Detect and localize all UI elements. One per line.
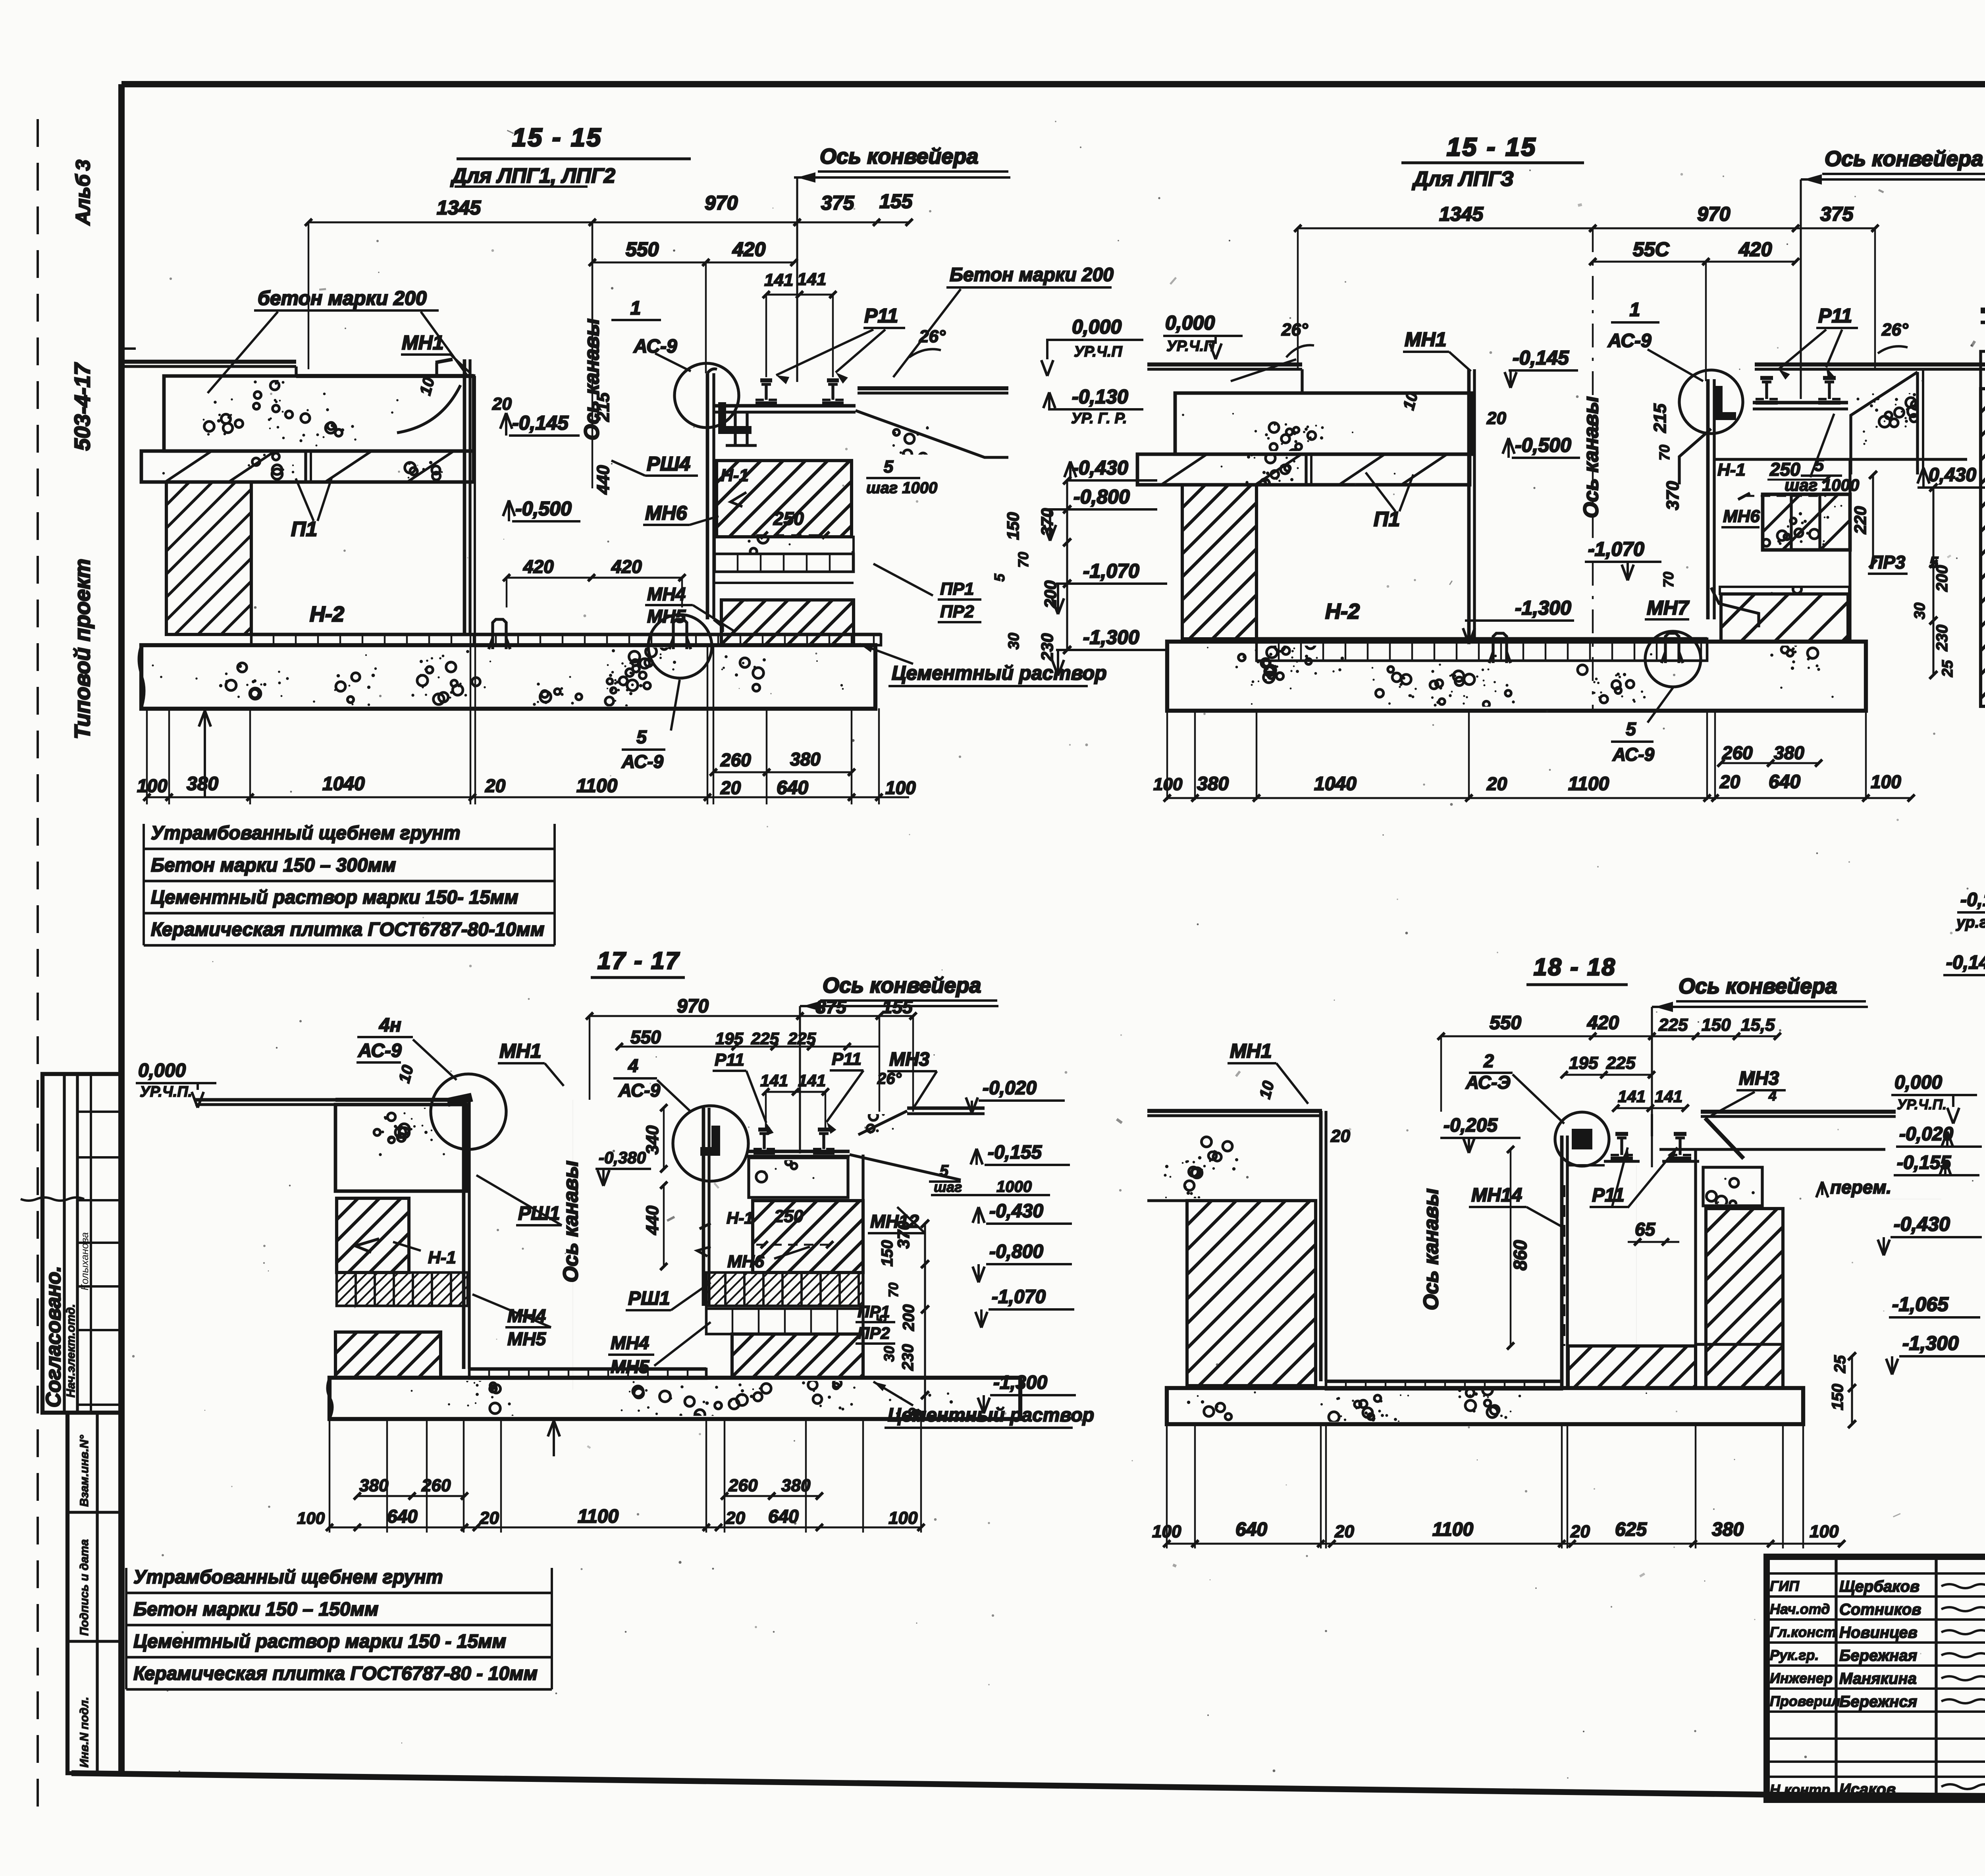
svg-text:195: 195 bbox=[1569, 1053, 1598, 1073]
svg-text:225: 225 bbox=[751, 1029, 779, 1048]
svg-text:Взам.инв.N°: Взам.инв.N° bbox=[78, 1434, 91, 1507]
svg-text:шаг: шаг bbox=[934, 1179, 962, 1195]
svg-text:Ось конвейера: Ось конвейера bbox=[1825, 147, 1983, 171]
svg-text:-1,300: -1,300 bbox=[1902, 1332, 1959, 1354]
svg-text:-0,130: -0,130 bbox=[1960, 889, 1985, 910]
svg-text:26°: 26° bbox=[1281, 320, 1308, 339]
svg-text:260: 260 bbox=[720, 750, 751, 770]
svg-text:МН4: МН4 bbox=[611, 1332, 649, 1353]
svg-text:440: 440 bbox=[594, 465, 613, 495]
svg-text:225: 225 bbox=[1658, 1015, 1688, 1035]
svg-text:-0,020: -0,020 bbox=[983, 1078, 1037, 1099]
svg-text:АС-Э: АС-Э bbox=[1465, 1072, 1511, 1093]
svg-text:150: 150 bbox=[1004, 512, 1022, 540]
svg-text:380: 380 bbox=[1197, 773, 1229, 794]
svg-text:Ось канавы: Ось канавы bbox=[1580, 396, 1603, 518]
svg-text:МН4: МН4 bbox=[647, 584, 686, 604]
svg-text:200: 200 bbox=[900, 1304, 917, 1331]
svg-text:70: 70 bbox=[1660, 572, 1677, 588]
svg-text:Цементный раствор: Цементный раствор bbox=[888, 1405, 1094, 1426]
svg-text:220: 220 bbox=[1851, 506, 1869, 534]
svg-text:5: 5 bbox=[874, 1314, 889, 1322]
svg-text:МН1: МН1 bbox=[402, 332, 444, 354]
svg-text:-0,500: -0,500 bbox=[515, 497, 572, 520]
svg-text:Бетон марки 150 – 150: Бетон марки 150 – 150мм bbox=[133, 1599, 378, 1620]
svg-text:1100: 1100 bbox=[1568, 773, 1609, 794]
svg-text:260: 260 bbox=[728, 1476, 758, 1495]
svg-text:0,000: 0,000 bbox=[1072, 316, 1122, 338]
svg-text:АС-9: АС-9 bbox=[1607, 330, 1652, 351]
svg-text:1: 1 bbox=[630, 298, 641, 319]
svg-text:-0,380: -0,380 bbox=[599, 1148, 646, 1167]
svg-text:20: 20 bbox=[1570, 1522, 1590, 1541]
svg-text:шаг 1000: шаг 1000 bbox=[866, 479, 937, 497]
svg-text:375: 375 bbox=[821, 192, 855, 214]
svg-text:Сотников: Сотников bbox=[1839, 1601, 1921, 1618]
svg-text:141: 141 bbox=[764, 270, 793, 290]
svg-text:5: 5 bbox=[636, 727, 647, 747]
svg-text:УР.Ч.П: УР.Ч.П bbox=[1166, 338, 1215, 355]
svg-text:-0,430: -0,430 bbox=[1894, 1213, 1950, 1235]
svg-text:ПР2: ПР2 bbox=[858, 1324, 890, 1342]
svg-text:340: 340 bbox=[643, 1125, 662, 1155]
svg-text:70: 70 bbox=[1015, 552, 1031, 568]
svg-text:МН5: МН5 bbox=[507, 1328, 547, 1349]
svg-text:100: 100 bbox=[1871, 771, 1901, 792]
svg-text:20: 20 bbox=[1719, 771, 1740, 792]
svg-text:Н-1: Н-1 bbox=[721, 466, 749, 485]
svg-text:-1,070: -1,070 bbox=[992, 1286, 1046, 1307]
svg-text:-0,155: -0,155 bbox=[988, 1142, 1042, 1163]
svg-text:ур.г.р.: ур.г.р. bbox=[1956, 914, 1985, 931]
svg-text:ПР1: ПР1 bbox=[940, 579, 974, 599]
svg-text:Гл.конст: Гл.конст bbox=[1770, 1624, 1836, 1640]
svg-text:380: 380 bbox=[790, 749, 821, 769]
svg-text:МН3: МН3 bbox=[1739, 1068, 1779, 1089]
svg-text:4: 4 bbox=[628, 1055, 638, 1076]
svg-text:5: 5 bbox=[940, 1162, 949, 1180]
svg-text:1345: 1345 bbox=[437, 197, 481, 219]
svg-text:УР.Ч.П.: УР.Ч.П. bbox=[140, 1084, 192, 1100]
svg-text:375: 375 bbox=[816, 997, 847, 1017]
svg-text:0,000: 0,000 bbox=[138, 1060, 186, 1081]
svg-text:Р11: Р11 bbox=[1818, 305, 1852, 327]
svg-text:260: 260 bbox=[421, 1476, 451, 1495]
svg-text:П1: П1 bbox=[291, 518, 317, 541]
svg-text:-1,300: -1,300 bbox=[1515, 597, 1571, 619]
svg-text:200: 200 bbox=[1041, 580, 1060, 609]
svg-text:380: 380 bbox=[359, 1476, 389, 1495]
svg-text:30: 30 bbox=[1006, 633, 1022, 650]
svg-text:Ось конвейера: Ось конвейера bbox=[820, 145, 978, 168]
svg-text:141: 141 bbox=[760, 1071, 788, 1090]
svg-text:Ось конвейера: Ось конвейера bbox=[823, 974, 981, 997]
svg-text:Утрамбованный щебнем грунт: Утрамбованный щебнем грунт bbox=[133, 1567, 443, 1588]
svg-text:Цементный раствор: Цементный раствор bbox=[892, 662, 1107, 684]
svg-text:-1,070: -1,070 bbox=[1588, 538, 1644, 560]
svg-text:Н-1: Н-1 bbox=[428, 1248, 456, 1267]
svg-text:Р11: Р11 bbox=[864, 305, 898, 327]
svg-text:УР.Ч.П: УР.Ч.П bbox=[1074, 343, 1122, 360]
svg-text:230: 230 bbox=[1038, 633, 1056, 661]
svg-text:-0,205: -0,205 bbox=[1443, 1115, 1498, 1136]
svg-text:Бетон марки 150 – 30: Бетон марки 150 – 300мм bbox=[151, 855, 396, 876]
svg-text:-1,300: -1,300 bbox=[1083, 626, 1139, 648]
svg-text:20: 20 bbox=[1334, 1522, 1354, 1541]
svg-text:970: 970 bbox=[1697, 203, 1731, 225]
svg-text:МН1: МН1 bbox=[1405, 328, 1447, 351]
svg-text:Н-1: Н-1 bbox=[1717, 460, 1746, 480]
svg-text:-0,800: -0,800 bbox=[989, 1241, 1043, 1262]
svg-text:Р11: Р11 bbox=[715, 1050, 744, 1070]
svg-text:100: 100 bbox=[885, 777, 916, 798]
svg-text:155: 155 bbox=[882, 997, 913, 1017]
svg-text:Керамическая плитка ГОСТ6787-8: Керамическая плитка ГОСТ6787-80 - 10мм bbox=[133, 1663, 538, 1684]
svg-text:380: 380 bbox=[187, 773, 218, 794]
svg-text:-0,430: -0,430 bbox=[1072, 457, 1128, 479]
svg-text:375: 375 bbox=[1820, 203, 1854, 225]
svg-text:370: 370 bbox=[1038, 508, 1056, 536]
svg-text:ПР2: ПР2 bbox=[940, 602, 974, 621]
svg-text:Утрамбованный щебнем грунт: Утрамбованный щебнем грунт bbox=[151, 823, 461, 844]
svg-text:141: 141 bbox=[797, 270, 826, 289]
svg-text:РШ1: РШ1 bbox=[628, 1288, 670, 1309]
svg-text:18 - 18: 18 - 18 bbox=[1534, 954, 1616, 980]
svg-text:Ось конвейера: Ось конвейера bbox=[1679, 974, 1837, 998]
svg-text:-1,070: -1,070 bbox=[1083, 560, 1139, 582]
svg-text:Ось канавы: Ось канавы bbox=[559, 1161, 582, 1282]
svg-text:260: 260 bbox=[1722, 742, 1753, 763]
svg-text:РШ4: РШ4 bbox=[647, 453, 690, 475]
svg-text:-0,500: -0,500 bbox=[1515, 434, 1571, 456]
svg-text:-1,065: -1,065 bbox=[1892, 1293, 1949, 1315]
svg-text:АС-9: АС-9 bbox=[618, 1080, 660, 1101]
svg-text:141: 141 bbox=[1618, 1087, 1646, 1106]
svg-text:Для ЛПГ1, ЛПГ2: Для ЛПГ1, ЛПГ2 bbox=[450, 164, 615, 187]
svg-text:1040: 1040 bbox=[1314, 773, 1357, 794]
svg-text:бетон марки 200: бетон марки 200 bbox=[258, 287, 427, 309]
svg-text:250: 250 bbox=[1769, 459, 1800, 480]
svg-text:100: 100 bbox=[1810, 1522, 1839, 1541]
svg-text:перем.: перем. bbox=[1830, 1177, 1891, 1197]
svg-text:-1,300: -1,300 bbox=[993, 1372, 1047, 1393]
svg-text:15 - 15: 15 - 15 bbox=[1447, 133, 1537, 161]
svg-text:15,5: 15,5 bbox=[1741, 1015, 1775, 1035]
svg-text:5: 5 bbox=[1626, 719, 1636, 739]
svg-text:420: 420 bbox=[611, 556, 642, 577]
svg-text:-0,800: -0,800 bbox=[1073, 486, 1130, 508]
svg-text:100: 100 bbox=[297, 1509, 325, 1527]
svg-text:225: 225 bbox=[1606, 1053, 1636, 1073]
svg-text:20: 20 bbox=[1486, 409, 1506, 428]
svg-text:Н.контр: Н.контр bbox=[1770, 1782, 1830, 1798]
svg-text:Исаков: Исаков bbox=[1839, 1781, 1896, 1798]
svg-text:230: 230 bbox=[1933, 625, 1951, 652]
svg-text:Ось канавы: Ось канавы bbox=[1420, 1188, 1443, 1310]
svg-text:20: 20 bbox=[1486, 773, 1507, 794]
svg-text:20: 20 bbox=[720, 777, 741, 798]
svg-text:Бетон марки 200: Бетон марки 200 bbox=[950, 264, 1114, 285]
svg-text:1345: 1345 bbox=[1439, 203, 1484, 225]
svg-text:550: 550 bbox=[1490, 1012, 1521, 1033]
svg-text:970: 970 bbox=[705, 192, 738, 214]
svg-text:-0,430: -0,430 bbox=[989, 1201, 1043, 1222]
svg-text:Нач.элект.отд.: Нач.элект.отд. bbox=[64, 1304, 77, 1398]
svg-text:Для ЛПГЗ: Для ЛПГЗ bbox=[1412, 168, 1514, 191]
svg-text:1: 1 bbox=[1630, 299, 1640, 320]
svg-text:195: 195 bbox=[715, 1029, 744, 1048]
svg-text:-0,130: -0,130 bbox=[1072, 386, 1128, 408]
svg-text:3: 3 bbox=[72, 160, 94, 171]
svg-text:420: 420 bbox=[1738, 238, 1772, 260]
svg-text:30: 30 bbox=[1912, 603, 1928, 619]
svg-text:П1: П1 bbox=[1374, 508, 1400, 531]
svg-text:Колыханова: Колыханова bbox=[79, 1232, 91, 1290]
svg-text:1100: 1100 bbox=[578, 1506, 619, 1527]
svg-text:640: 640 bbox=[1235, 1519, 1267, 1540]
svg-text:370: 370 bbox=[894, 1221, 913, 1249]
svg-text:Бережная: Бережная bbox=[1839, 1647, 1917, 1664]
svg-text:100: 100 bbox=[1153, 775, 1183, 794]
svg-text:Рук.гр.: Рук.гр. bbox=[1770, 1647, 1819, 1663]
svg-text:Новинцев: Новинцев bbox=[1839, 1624, 1918, 1641]
svg-text:640: 640 bbox=[1769, 771, 1800, 792]
svg-text:1100: 1100 bbox=[1432, 1519, 1474, 1540]
svg-text:70: 70 bbox=[886, 1282, 901, 1298]
svg-text:970: 970 bbox=[677, 996, 709, 1017]
svg-text:Манякина: Манякина bbox=[1839, 1670, 1917, 1687]
svg-text:МН14: МН14 bbox=[1471, 1185, 1522, 1206]
svg-text:МН5: МН5 bbox=[611, 1356, 650, 1377]
svg-text:17 - 17: 17 - 17 bbox=[597, 947, 680, 974]
svg-text:Керамическая плитка ГОСТ6787-8: Керамическая плитка ГОСТ6787-80-10мм bbox=[151, 919, 544, 940]
svg-text:МН1: МН1 bbox=[499, 1040, 542, 1062]
svg-text:550: 550 bbox=[630, 1027, 661, 1047]
svg-text:141: 141 bbox=[798, 1071, 826, 1090]
svg-text:20: 20 bbox=[479, 1508, 499, 1528]
svg-text:ПР3: ПР3 bbox=[1870, 552, 1906, 573]
svg-text:Бережнся: Бережнся bbox=[1839, 1693, 1917, 1710]
svg-text:ГИП: ГИП bbox=[1770, 1578, 1800, 1594]
svg-text:215: 215 bbox=[594, 392, 613, 422]
svg-text:100: 100 bbox=[1152, 1522, 1181, 1541]
svg-text:Н-2: Н-2 bbox=[1325, 600, 1360, 623]
svg-text:МН1: МН1 bbox=[1230, 1040, 1272, 1062]
svg-text:МН6: МН6 bbox=[727, 1252, 764, 1271]
svg-text:440: 440 bbox=[643, 1205, 662, 1235]
svg-text:370: 370 bbox=[1663, 481, 1682, 510]
svg-text:Н-1: Н-1 bbox=[727, 1209, 754, 1227]
svg-text:55С: 55С bbox=[1633, 238, 1670, 260]
svg-text:420: 420 bbox=[732, 238, 766, 260]
svg-text:150: 150 bbox=[1829, 1384, 1846, 1410]
svg-text:141: 141 bbox=[1655, 1087, 1682, 1106]
svg-text:4н: 4н bbox=[379, 1015, 401, 1036]
svg-text:МН7: МН7 bbox=[1647, 597, 1690, 619]
svg-text:65: 65 bbox=[1635, 1219, 1656, 1240]
svg-text:640: 640 bbox=[387, 1506, 418, 1527]
svg-text:26°: 26° bbox=[919, 327, 946, 346]
svg-text:20: 20 bbox=[485, 775, 506, 796]
svg-text:0,000: 0,000 bbox=[1165, 312, 1215, 334]
svg-text:-0,145: -0,145 bbox=[1946, 952, 1985, 973]
svg-text:150: 150 bbox=[1702, 1015, 1731, 1035]
svg-text:АС-9: АС-9 bbox=[621, 751, 663, 772]
svg-text:70: 70 bbox=[1656, 445, 1673, 461]
svg-text:Альб: Альб bbox=[72, 174, 94, 226]
svg-text:УР. Г. Р.: УР. Г. Р. bbox=[1071, 410, 1127, 427]
svg-text:20: 20 bbox=[1330, 1126, 1350, 1146]
svg-text:420: 420 bbox=[1587, 1012, 1619, 1033]
svg-text:625: 625 bbox=[1615, 1519, 1647, 1540]
svg-text:0,000: 0,000 bbox=[1894, 1072, 1942, 1093]
svg-text:250: 250 bbox=[774, 1207, 804, 1226]
svg-text:200: 200 bbox=[1933, 565, 1951, 592]
svg-text:Проверил: Проверил bbox=[1770, 1693, 1840, 1709]
svg-text:Согласовано.: Согласовано. bbox=[42, 1266, 65, 1407]
svg-text:225: 225 bbox=[788, 1029, 816, 1048]
svg-text:215: 215 bbox=[1650, 403, 1670, 433]
svg-text:2: 2 bbox=[1483, 1051, 1494, 1071]
svg-text:МН3: МН3 bbox=[889, 1049, 930, 1070]
svg-text:Инв.N подл.: Инв.N подл. bbox=[78, 1697, 91, 1768]
svg-text:5: 5 bbox=[884, 457, 894, 476]
svg-text:4: 4 bbox=[1768, 1087, 1777, 1104]
svg-text:УР.Ч.П.: УР.Ч.П. bbox=[1897, 1096, 1946, 1112]
svg-text:380: 380 bbox=[1712, 1519, 1744, 1540]
svg-text:Щербаков: Щербаков bbox=[1839, 1578, 1919, 1595]
svg-text:155: 155 bbox=[879, 190, 913, 212]
svg-text:25: 25 bbox=[1831, 1355, 1849, 1373]
svg-text:Р11: Р11 bbox=[1592, 1185, 1625, 1206]
svg-text:20: 20 bbox=[492, 394, 512, 414]
svg-text:-0,145: -0,145 bbox=[512, 412, 569, 434]
svg-text:503-4-17: 503-4-17 bbox=[70, 362, 94, 451]
svg-text:МН6: МН6 bbox=[645, 502, 688, 524]
svg-text:Р11: Р11 bbox=[832, 1049, 861, 1069]
svg-text:640: 640 bbox=[777, 777, 808, 798]
svg-text:Цементный раствор марки 150 -: Цементный раствор марки 150 - 15мм bbox=[133, 1631, 506, 1652]
svg-text:МН5: МН5 bbox=[647, 606, 686, 627]
svg-text:26°: 26° bbox=[877, 1070, 902, 1087]
svg-text:550: 550 bbox=[626, 238, 659, 260]
svg-text:100: 100 bbox=[888, 1508, 918, 1528]
svg-text:250: 250 bbox=[773, 508, 804, 529]
svg-text:1040: 1040 bbox=[322, 773, 365, 794]
svg-text:420: 420 bbox=[523, 556, 554, 577]
svg-text:15 - 15: 15 - 15 bbox=[512, 123, 602, 152]
svg-text:1100: 1100 bbox=[576, 775, 618, 796]
svg-text:МН6: МН6 bbox=[1723, 507, 1760, 526]
svg-text:АС-9: АС-9 bbox=[358, 1040, 402, 1061]
svg-text:5: 5 bbox=[991, 573, 1008, 582]
svg-text:Цементный раствор марки 150- 1: Цементный раствор марки 150- 15мм bbox=[151, 887, 518, 908]
svg-text:100: 100 bbox=[137, 775, 168, 796]
svg-text:Н-2: Н-2 bbox=[310, 602, 344, 626]
svg-text:30: 30 bbox=[881, 1346, 897, 1362]
svg-text:0,430: 0,430 bbox=[1929, 465, 1976, 486]
svg-text:Инженер: Инженер bbox=[1770, 1670, 1833, 1686]
svg-text:Подпись и дата: Подпись и дата bbox=[78, 1539, 91, 1636]
svg-text:Типовой проект: Типовой проект bbox=[70, 559, 94, 739]
svg-text:АС-9: АС-9 bbox=[1612, 744, 1654, 765]
svg-text:1000: 1000 bbox=[996, 1178, 1032, 1195]
svg-text:380: 380 bbox=[781, 1476, 811, 1495]
svg-text:26°: 26° bbox=[1881, 320, 1908, 339]
svg-text:860: 860 bbox=[1510, 1240, 1530, 1271]
svg-text:380: 380 bbox=[1774, 742, 1804, 763]
svg-text:Нач.отд: Нач.отд bbox=[1770, 1601, 1830, 1617]
svg-text:25: 25 bbox=[1939, 660, 1956, 677]
svg-text:150: 150 bbox=[879, 1240, 896, 1267]
svg-text:230: 230 bbox=[899, 1344, 917, 1371]
svg-text:20: 20 bbox=[725, 1508, 745, 1528]
svg-text:-0,145: -0,145 bbox=[1513, 347, 1569, 369]
